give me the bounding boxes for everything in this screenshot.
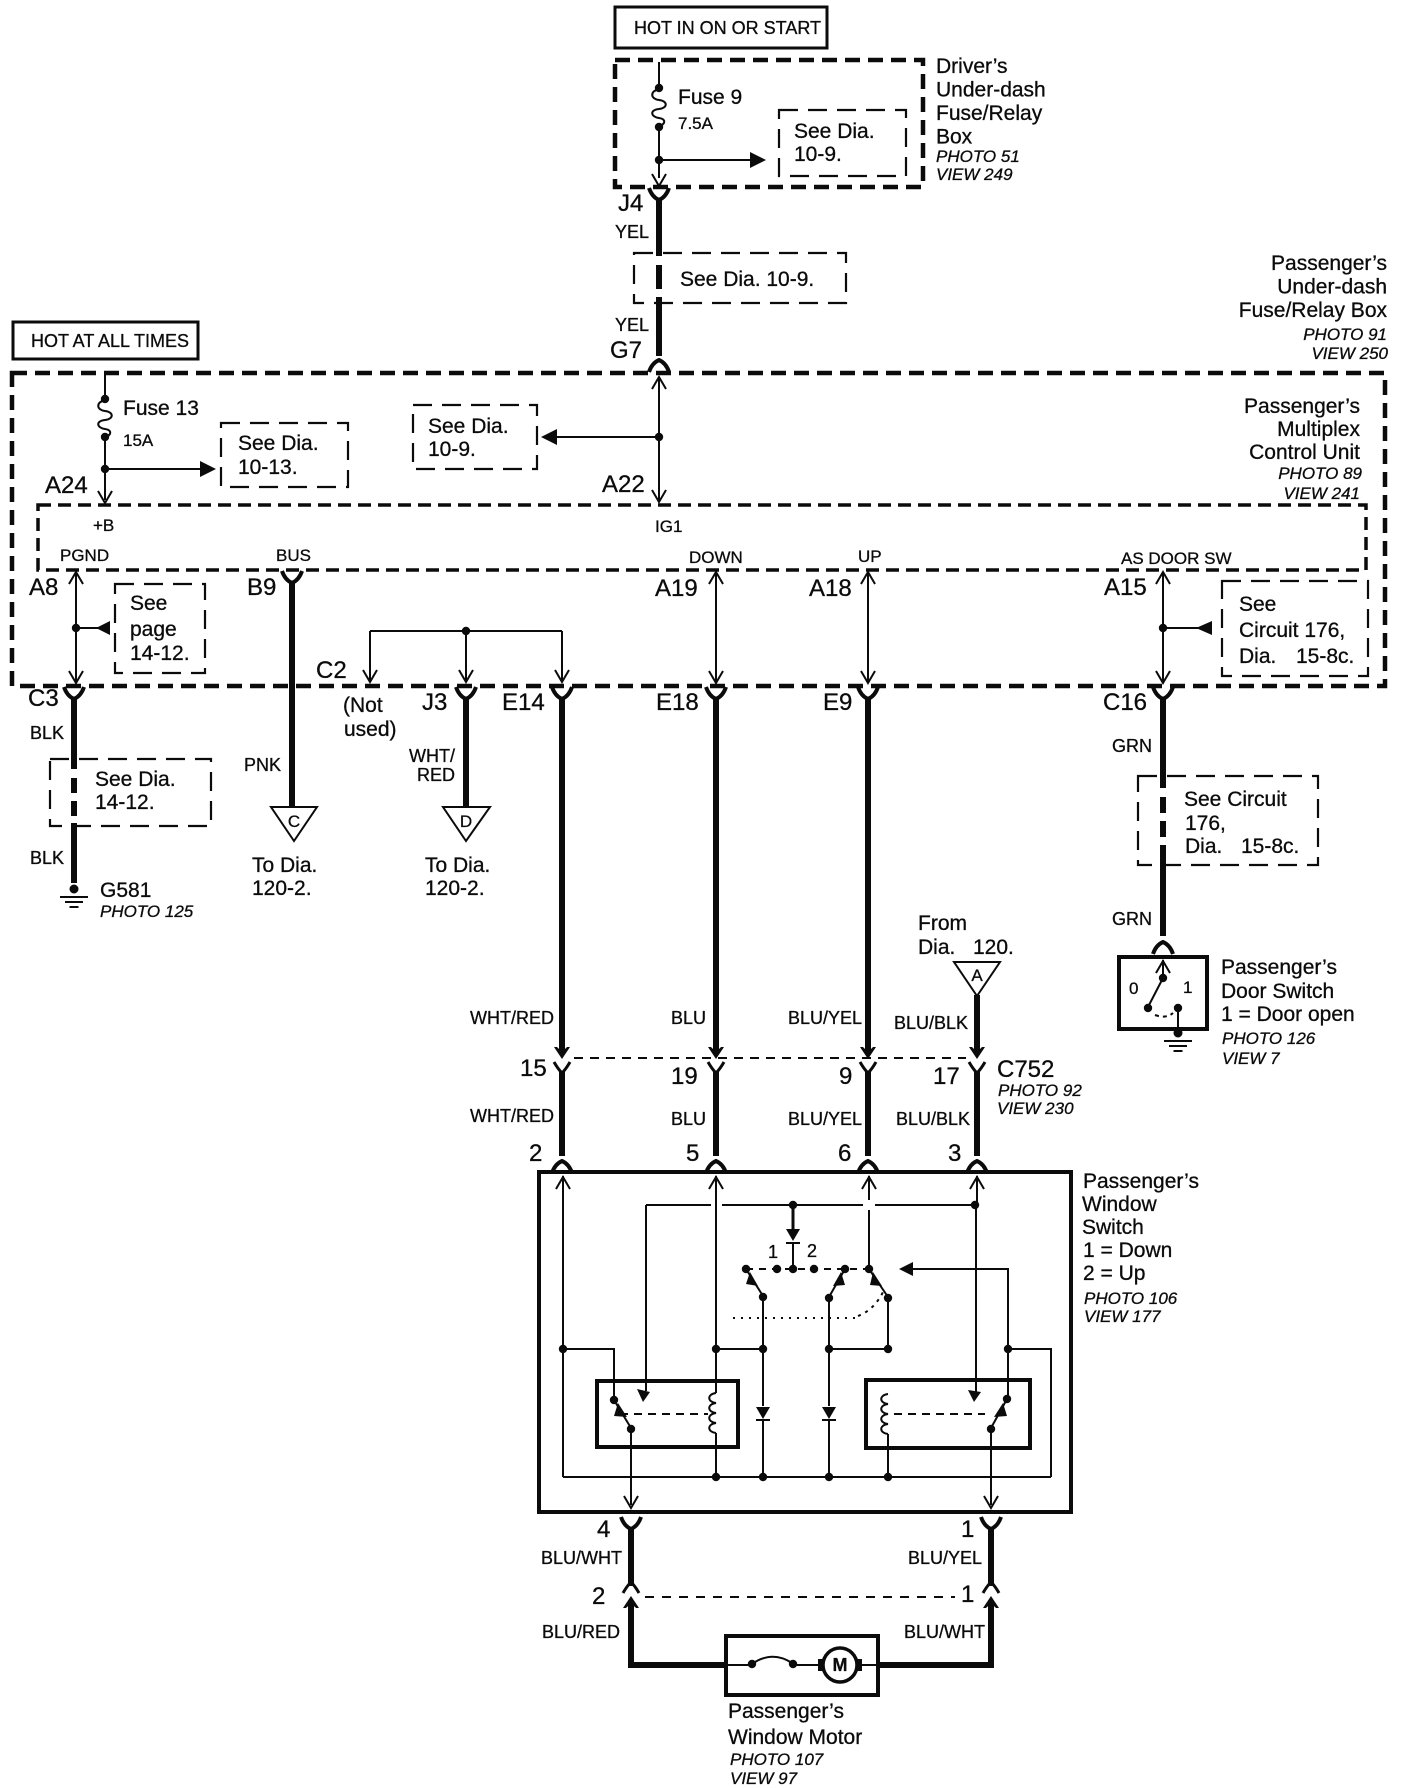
svg-text:(Not: (Not — [343, 694, 383, 717]
node right output junction — [1004, 1345, 1051, 1477]
svg-text:From: From — [918, 912, 967, 935]
svg-text:To Dia.: To Dia. — [425, 854, 490, 877]
svg-text:Switch: Switch — [1082, 1216, 1144, 1239]
svg-text:Control Unit: Control Unit — [1249, 441, 1360, 464]
label 1 — [768, 1242, 778, 1262]
svg-text:See Dia.: See Dia. — [238, 432, 319, 455]
svg-text:120-2.: 120-2. — [425, 877, 485, 900]
svg-text:D: D — [460, 812, 472, 831]
wire pin5 feed — [712, 1176, 720, 1393]
wire arrow from G7 line to See Dia. 10-9. — [541, 429, 663, 445]
connector E9 — [823, 687, 878, 716]
wire lever3 to right coil — [884, 1298, 892, 1353]
wire GRN C16 to door switch — [1112, 699, 1163, 936]
svg-text:Passenger’s: Passenger’s — [1221, 956, 1337, 979]
connector pin 4 — [597, 1516, 641, 1543]
svg-text:Passenger’s: Passenger’s — [1271, 252, 1387, 275]
wire fuse13 feed — [104, 375, 106, 500]
svg-text:VIEW 249: VIEW 249 — [936, 165, 1013, 184]
svg-text:1 = Down: 1 = Down — [1083, 1239, 1172, 1262]
passenger's window switch box — [539, 1172, 1071, 1512]
passenger's door switch — [1119, 957, 1207, 1029]
svg-text:Dia.: Dia. — [1239, 645, 1276, 668]
svg-text:BLU/WHT: BLU/WHT — [904, 1622, 985, 1642]
svg-text:Dia.: Dia. — [918, 936, 955, 959]
svg-text:9: 9 — [839, 1063, 852, 1090]
svg-text:5: 5 — [686, 1140, 699, 1167]
svg-text:PNK: PNK — [244, 755, 281, 775]
connector motor pin 2 — [592, 1582, 639, 1610]
svg-text:PHOTO 91: PHOTO 91 — [1303, 325, 1387, 344]
pin 2 entry arrow — [556, 1177, 570, 1189]
svg-text:DOWN: DOWN — [689, 548, 743, 567]
reference box See Dia. 10-9. (IG1) — [413, 405, 537, 469]
inline connector dashed link — [645, 1596, 955, 1598]
svg-text:PHOTO 107: PHOTO 107 — [730, 1750, 824, 1769]
wire BLU/RED to motor — [542, 1604, 726, 1665]
reference box See page 14-12. — [115, 584, 205, 673]
node fuse9 output junction — [655, 156, 663, 164]
node A8 branch — [72, 621, 110, 635]
svg-text:GRN: GRN — [1112, 736, 1152, 756]
svg-text:7.5A: 7.5A — [678, 114, 714, 133]
passenger's window motor box — [726, 1636, 878, 1695]
left relay coil — [709, 1393, 720, 1481]
right relay (up) box — [866, 1380, 1030, 1448]
label box HOT IN ON OR START — [615, 7, 827, 48]
svg-text:3: 3 — [948, 1140, 961, 1167]
ground (door switch) — [1164, 1029, 1192, 1052]
driver's under-dash fuse/relay box (dashed) — [615, 60, 923, 187]
svg-text:0: 0 — [1129, 979, 1138, 998]
text Passenger's Window Switch — [1082, 1170, 1199, 1326]
svg-text:1: 1 — [1183, 978, 1192, 997]
svg-text:14-12.: 14-12. — [130, 642, 190, 665]
connector J3 — [422, 687, 476, 716]
svg-text:A24: A24 — [45, 472, 88, 499]
passenger's multiplex control unit (dashed box) — [12, 373, 1385, 686]
svg-text:Fuse 9: Fuse 9 — [678, 86, 742, 109]
svg-text:Under-dash: Under-dash — [1277, 276, 1387, 299]
svg-text:See Dia. 10-9.: See Dia. 10-9. — [680, 268, 814, 291]
svg-text:G7: G7 — [610, 337, 642, 364]
svg-text:PHOTO 92: PHOTO 92 — [998, 1081, 1082, 1100]
bottom rail — [563, 1476, 1051, 1478]
svg-text:Door Switch: Door Switch — [1221, 980, 1334, 1003]
svg-text:AS DOOR SW: AS DOOR SW — [1121, 549, 1232, 568]
svg-text:RED: RED — [417, 765, 455, 785]
svg-text:2: 2 — [592, 1583, 605, 1610]
pin 6 entry arrow — [862, 1177, 876, 1189]
connector J4 — [618, 188, 669, 217]
wire BLU/BLK triangle A to C752 pin 17 — [894, 995, 977, 1051]
svg-text:Fuse/Relay Box: Fuse/Relay Box — [1239, 299, 1388, 322]
wire AS DOOR SW A15 — [1104, 572, 1170, 683]
svg-text:C16: C16 — [1103, 689, 1147, 716]
wire WHT/RED J3 to triangle D — [409, 699, 466, 806]
label 2 — [807, 1241, 817, 1261]
svg-text:10-9.: 10-9. — [428, 438, 476, 461]
pin 3 entry arrow — [970, 1177, 984, 1189]
svg-text:10-9.: 10-9. — [794, 143, 842, 166]
wire pin2 feed — [559, 1176, 567, 1477]
svg-text:E9: E9 — [823, 689, 852, 716]
svg-text:VIEW 230: VIEW 230 — [997, 1099, 1074, 1118]
svg-text:See Dia.: See Dia. — [428, 415, 509, 438]
svg-text:Passenger’s: Passenger’s — [1244, 395, 1360, 418]
wire arrow to See Dia. 10-13. — [105, 461, 216, 477]
svg-text:1: 1 — [961, 1516, 974, 1543]
connector C3 — [28, 685, 84, 712]
svg-text:C: C — [288, 812, 300, 831]
label box HOT AT ALL TIMES — [13, 322, 198, 359]
svg-text:See: See — [1239, 593, 1276, 616]
connector C752 pin 15 — [554, 1047, 570, 1073]
wire WHT/RED C752 to switch pin 2 — [470, 1072, 572, 1173]
svg-text:See Dia.: See Dia. — [794, 120, 875, 143]
wire to left relay throw — [637, 1205, 650, 1402]
pin name DOWN — [689, 548, 743, 567]
connector C752 pin 19 — [708, 1047, 724, 1073]
svg-text:VIEW 7: VIEW 7 — [1222, 1049, 1280, 1068]
wire WHT/RED E14 to C752 pin 15 — [470, 699, 562, 1051]
svg-text:BLU: BLU — [671, 1109, 706, 1129]
motor internal contact — [728, 1657, 822, 1668]
svg-text:BLU/WHT: BLU/WHT — [541, 1548, 622, 1568]
svg-text:HOT IN ON OR START: HOT IN ON OR START — [634, 18, 821, 38]
diode D1 — [756, 1349, 770, 1481]
svg-text:G581: G581 — [100, 879, 151, 902]
svg-text:YEL: YEL — [615, 315, 649, 335]
svg-text:PHOTO 125: PHOTO 125 — [100, 902, 194, 921]
wire BLU/YEL C752 to switch pin 6 — [788, 1072, 878, 1173]
reference box See Circuit 176, Dia. 15-8c. — [1222, 581, 1368, 676]
off-page triangle C — [252, 807, 317, 900]
wire lever1 to diode — [716, 1297, 767, 1353]
left relay contact and arm — [610, 1396, 635, 1433]
connector C752 pin 9 — [860, 1047, 876, 1073]
svg-text:15A: 15A — [123, 431, 154, 450]
svg-text:15-8c.: 15-8c. — [1296, 645, 1354, 668]
fuse F13 (Fuse 13, 15A) — [98, 395, 199, 450]
svg-text:Passenger’s: Passenger’s — [1083, 1170, 1199, 1193]
svg-text:IG1: IG1 — [655, 517, 682, 536]
svg-text:+B: +B — [93, 516, 114, 535]
svg-text:10-13.: 10-13. — [238, 456, 298, 479]
wire G7 to IG1 (A22) — [602, 377, 666, 502]
reference box See Dia. 14-12. — [50, 759, 211, 826]
node fuse13 output junction — [101, 465, 109, 473]
svg-text:page: page — [130, 618, 177, 641]
svg-text:A22: A22 — [602, 471, 645, 498]
wire lever2 to diode — [825, 1298, 888, 1353]
svg-text:Window: Window — [1082, 1193, 1158, 1216]
svg-text:BLK: BLK — [30, 848, 64, 868]
wire fuse feed — [658, 62, 660, 178]
wire BLU/WHT to motor — [878, 1604, 994, 1665]
wire arrow to See Dia. 10-9. — [659, 152, 766, 168]
svg-text:WHT/RED: WHT/RED — [470, 1106, 554, 1126]
svg-text:E18: E18 — [656, 689, 699, 716]
right relay coil — [881, 1394, 892, 1481]
svg-text:A: A — [971, 966, 983, 985]
diode D2 — [822, 1349, 836, 1481]
wire BLU/BLK C752 to switch pin 3 — [896, 1072, 987, 1173]
svg-text:PHOTO 89: PHOTO 89 — [1278, 464, 1362, 483]
connector G7 — [610, 337, 669, 372]
fuse F9 (Fuse 9, 7.5A) — [652, 84, 742, 133]
svg-text:2 = Up: 2 = Up — [1083, 1262, 1145, 1285]
svg-text:E14: E14 — [502, 689, 545, 716]
switch lever 1 — [746, 1269, 767, 1301]
connector B9 — [247, 571, 302, 601]
svg-text:176,: 176, — [1185, 812, 1226, 835]
wire BLU E18 to C752 pin 19 — [671, 699, 716, 1051]
connector E14 — [502, 687, 572, 716]
svg-text:Multiplex: Multiplex — [1277, 418, 1360, 441]
C2 internal bracket wires — [363, 627, 569, 682]
switch lever 2 — [825, 1269, 845, 1302]
svg-text:VIEW 177: VIEW 177 — [1084, 1307, 1161, 1326]
svg-text:A19: A19 — [655, 575, 698, 602]
svg-text:Driver’s: Driver’s — [936, 55, 1008, 78]
svg-text:A15: A15 — [1104, 574, 1147, 601]
svg-text:Box: Box — [936, 126, 973, 149]
svg-text:HOT AT ALL TIMES: HOT AT ALL TIMES — [31, 331, 189, 351]
wire pin3 feed — [968, 1176, 981, 1402]
diode center (rocker feed) — [786, 1205, 800, 1268]
svg-text:BLU/RED: BLU/RED — [542, 1622, 620, 1642]
svg-text:J3: J3 — [422, 689, 447, 716]
text Passenger's Door Switch — [1221, 956, 1355, 1068]
wire BLU/YEL E9 to C752 pin 9 — [788, 699, 868, 1051]
svg-text:used): used) — [344, 718, 397, 741]
wire pin2 to left relay common — [563, 1349, 614, 1398]
pin name BUS — [276, 546, 311, 565]
connector C752 pin 17 — [969, 1047, 985, 1073]
driver's box exit arrow — [652, 174, 666, 186]
svg-text:BLU: BLU — [671, 1008, 706, 1028]
control unit inner block (dashed) — [38, 505, 1366, 570]
wire BLU/YEL pin1 down — [908, 1528, 991, 1586]
svg-text:See Circuit: See Circuit — [1184, 788, 1287, 811]
svg-text:1 = Door open: 1 = Door open — [1221, 1003, 1355, 1026]
svg-text:Under-dash: Under-dash — [936, 79, 1046, 102]
wire YEL J4 to G7 — [615, 200, 659, 356]
svg-text:Dia.: Dia. — [1185, 835, 1222, 858]
pin 5 entry arrow — [709, 1177, 723, 1189]
ground G581 — [60, 879, 194, 921]
pin name PGND — [60, 546, 109, 565]
connector E18 — [656, 687, 726, 716]
wire BLU C752 to switch pin 5 — [671, 1072, 726, 1173]
svg-text:WHT/RED: WHT/RED — [470, 1008, 554, 1028]
svg-text:PHOTO 106: PHOTO 106 — [1084, 1289, 1178, 1308]
pin name +B — [93, 516, 114, 535]
reference box See Circuit 176, Dia. 15-8c. (on GRN wire) — [1138, 776, 1318, 865]
svg-text:Fuse 13: Fuse 13 — [123, 397, 199, 420]
svg-text:PHOTO 126: PHOTO 126 — [1222, 1029, 1316, 1048]
svg-text:VIEW 250: VIEW 250 — [1311, 344, 1388, 363]
right relay contact and arm — [987, 1395, 1011, 1433]
mechanical link (dotted) — [733, 1292, 883, 1318]
right relay mechanical link — [894, 1413, 985, 1415]
svg-text:BLU/YEL: BLU/YEL — [908, 1548, 982, 1568]
left relay mechanical link — [620, 1413, 708, 1415]
svg-text:BLU/YEL: BLU/YEL — [788, 1008, 862, 1028]
svg-text:A8: A8 — [29, 574, 58, 601]
svg-text:120-2.: 120-2. — [252, 877, 312, 900]
connector C16 — [1103, 687, 1173, 716]
wire PGND A8 — [29, 572, 83, 683]
svg-text:Circuit 176,: Circuit 176, — [1239, 619, 1345, 642]
svg-text:PHOTO 51: PHOTO 51 — [936, 147, 1020, 166]
pin name AS DOOR SW — [1121, 549, 1232, 568]
svg-text:VIEW 97: VIEW 97 — [730, 1769, 798, 1788]
svg-text:See Dia.: See Dia. — [95, 768, 176, 791]
wire PNK BUS to triangle C — [244, 583, 292, 806]
svg-text:M: M — [833, 1655, 848, 1675]
wire top distribution rail — [646, 1201, 979, 1209]
wire pin6 feed — [868, 1176, 870, 1269]
svg-text:A18: A18 — [809, 575, 852, 602]
pin A24 entry arrow — [45, 472, 112, 503]
svg-text:15: 15 — [520, 1055, 547, 1082]
wire rocker output to right — [899, 1262, 1008, 1349]
rocker contact row (dashed) — [742, 1265, 873, 1273]
connector door switch entry — [1153, 942, 1173, 954]
reference box See Dia. 10-9. (on YEL wire) — [634, 253, 846, 303]
wire pin 1 output — [984, 1429, 998, 1508]
motor M1 — [818, 1648, 876, 1682]
svg-text:14-12.: 14-12. — [95, 791, 155, 814]
connector pin 1 — [961, 1516, 1001, 1543]
svg-text:PGND: PGND — [60, 546, 109, 565]
connector motor pin 1 — [961, 1581, 999, 1608]
svg-text:WHT/: WHT/ — [409, 746, 455, 766]
text From Dia. 120. — [918, 912, 1014, 959]
wire BLU/WHT pin4 down — [541, 1528, 631, 1586]
off-page triangle D — [425, 807, 490, 900]
label C2 — [316, 657, 347, 684]
left relay (down) box — [597, 1381, 738, 1447]
svg-text:C752: C752 — [997, 1056, 1054, 1083]
label (Not used) — [343, 694, 397, 741]
svg-text:Window Motor: Window Motor — [728, 1726, 862, 1749]
svg-text:4: 4 — [597, 1516, 610, 1543]
svg-text:B9: B9 — [247, 574, 276, 601]
reference box See Dia. 10-9. — [779, 110, 906, 176]
wire pin 4 output — [624, 1429, 638, 1508]
text Passenger's Window Motor — [728, 1700, 862, 1788]
text Driver's Under-dash Fuse/Relay Box — [936, 55, 1046, 184]
pin name IG1 — [655, 517, 682, 536]
svg-text:C3: C3 — [28, 685, 59, 712]
svg-text:2: 2 — [529, 1140, 542, 1167]
svg-text:BLU/BLK: BLU/BLK — [896, 1109, 970, 1129]
svg-text:C2: C2 — [316, 657, 347, 684]
text Passenger's Under-dash Fuse/Relay Box — [1239, 252, 1389, 363]
svg-text:To Dia.: To Dia. — [252, 854, 317, 877]
svg-text:2: 2 — [807, 1241, 817, 1261]
svg-text:1: 1 — [961, 1581, 974, 1608]
svg-text:BUS: BUS — [276, 546, 311, 565]
svg-text:BLK: BLK — [30, 723, 64, 743]
wire UP A18 — [809, 572, 875, 683]
wire DOWN A19 — [655, 572, 723, 683]
switch lever 3 — [869, 1269, 892, 1302]
off-page triangle A — [954, 962, 1000, 996]
svg-text:BLU/BLK: BLU/BLK — [894, 1013, 968, 1033]
svg-text:See: See — [130, 592, 167, 615]
svg-text:VIEW 241: VIEW 241 — [1283, 484, 1360, 503]
svg-text:15-8c.: 15-8c. — [1241, 835, 1299, 858]
svg-text:UP: UP — [858, 547, 882, 566]
node A15 branch — [1159, 621, 1212, 635]
svg-text:GRN: GRN — [1112, 909, 1152, 929]
svg-text:19: 19 — [671, 1063, 698, 1090]
svg-text:120.: 120. — [973, 936, 1014, 959]
svg-text:YEL: YEL — [615, 222, 649, 242]
svg-text:17: 17 — [933, 1063, 960, 1090]
svg-text:Fuse/Relay: Fuse/Relay — [936, 102, 1043, 125]
svg-text:Passenger’s: Passenger’s — [728, 1700, 844, 1723]
svg-text:1: 1 — [768, 1242, 778, 1262]
svg-text:6: 6 — [838, 1140, 851, 1167]
connector row C752 (dashed link) — [520, 1055, 1082, 1118]
svg-text:BLU/YEL: BLU/YEL — [788, 1109, 862, 1129]
pin name UP — [858, 547, 882, 566]
text Passenger's Multiplex Control Unit — [1244, 395, 1363, 503]
reference box See Dia. 10-13. — [221, 423, 348, 487]
svg-text:J4: J4 — [618, 190, 643, 217]
wire BLK C3 to G581 — [30, 699, 74, 883]
